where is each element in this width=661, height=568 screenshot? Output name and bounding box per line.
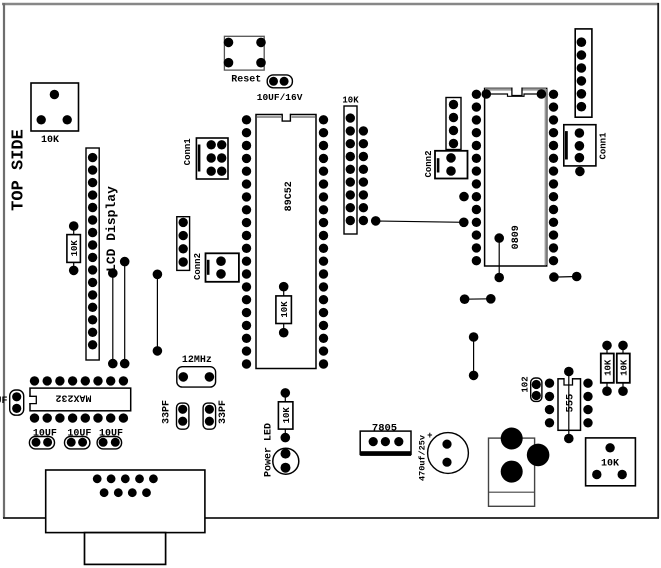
svg-text:Reset: Reset: [231, 75, 261, 86]
svg-text:10K: 10K: [70, 240, 80, 257]
capacitor 10UF #1: [29, 437, 54, 449]
svg-text:33PF: 33PF: [218, 400, 229, 424]
wire (inside 0809 bottom): [494, 233, 504, 282]
svg-text:89C52: 89C52: [284, 181, 295, 211]
wire (vertical, below 0809): [469, 332, 479, 380]
svg-text:12MHz: 12MHz: [182, 355, 212, 366]
connector LCD Display header: [86, 148, 99, 360]
resistor network 10K SIP: [344, 106, 357, 234]
svg-text:Conn1: Conn1: [183, 138, 193, 166]
capacitor 10UF (left edge, vertical): [10, 390, 24, 415]
svg-text:10K: 10K: [342, 96, 359, 106]
svg-text:555: 555: [565, 394, 577, 413]
connector DB9 body: [46, 470, 205, 533]
connector DB9 shell: [85, 533, 166, 565]
555 right pins: [583, 379, 592, 428]
crystal 12MHz: [177, 367, 216, 387]
IC U1 89C52: [256, 114, 316, 369]
svg-text:Conn2: Conn2: [193, 253, 203, 280]
capacitor 10UF #2: [65, 437, 90, 449]
capacitor 10UF #3: [97, 437, 122, 449]
resistor 10K (left of LCD): [67, 221, 81, 275]
resistor 10K (above LED): [278, 388, 293, 442]
0809 right pins: [549, 90, 558, 266]
potentiometer 10K (bottom right): [586, 438, 636, 486]
svg-text:Power LED: Power LED: [263, 423, 274, 477]
connector Conn2 strip (right): [446, 98, 461, 150]
wire (through 555): [564, 367, 574, 444]
555 left pins: [545, 379, 554, 428]
connector Conn2 box (left): [206, 253, 239, 281]
wire (horizontal, SIP to 0809): [371, 216, 469, 227]
89C52 right pins: [319, 115, 328, 369]
svg-text:10K: 10K: [41, 135, 59, 146]
10K SIP second pin column: [359, 126, 368, 225]
svg-text:10UF/16V: 10UF/16V: [257, 92, 303, 103]
svg-text:10K: 10K: [620, 359, 630, 376]
LED D1 (Power): [273, 448, 299, 474]
switch Reset: [224, 36, 266, 70]
IC MAX232: [29, 388, 131, 411]
svg-text:TOP SIDE: TOP SIDE: [10, 129, 29, 211]
connector strip (top right): [575, 29, 592, 117]
svg-text:10K: 10K: [604, 359, 614, 376]
svg-text:10K: 10K: [601, 459, 619, 470]
wire (0809 top, pin1 strap): [482, 89, 547, 99]
connector Conn1 (left): [196, 138, 228, 179]
board outline top edge: [2, 3, 659, 5]
svg-text:10K: 10K: [280, 301, 290, 318]
board outline left edge: [3, 3, 5, 518]
svg-text:+: +: [427, 431, 432, 441]
svg-text:33PF: 33PF: [162, 400, 173, 424]
svg-text:0809: 0809: [511, 225, 522, 249]
board outline bottom edge: [3, 517, 659, 519]
capacitor 470uf/25v: [428, 433, 469, 474]
capacitor 33PF (right): [203, 403, 216, 429]
wire (vertical, left of 89C52 #1): [108, 268, 118, 368]
resistor 10K (bottom right #1): [601, 341, 614, 396]
svg-text:7805: 7805: [372, 423, 397, 435]
board outline right edge: [657, 3, 659, 518]
svg-text:Conn2: Conn2: [424, 150, 434, 177]
MAX232 bottom pins: [30, 413, 128, 422]
wire (vertical, left of 89C52 #3): [153, 270, 163, 356]
svg-text:470uf/25v: 470uf/25v: [418, 435, 428, 481]
node (left of 0809): [459, 192, 469, 202]
0809 left pins: [472, 90, 481, 266]
transistor Q1 (power, TO-220): [489, 428, 550, 507]
connector Conn1 (right): [564, 125, 596, 166]
wire (vertical, left of 89C52 #2): [120, 257, 130, 369]
capacitor 33PF (left): [177, 403, 189, 429]
MAX232 top pins: [30, 376, 128, 385]
89C52 left pins: [242, 115, 251, 369]
capacitor 102: [531, 378, 542, 401]
svg-text:102: 102: [521, 376, 531, 392]
resistor 10K (inside 89C52): [276, 282, 292, 338]
resistor 10K (bottom right #2): [617, 341, 630, 396]
wire (horizontal, below 0809 right): [549, 272, 581, 282]
wire (horizontal, below 0809 left): [460, 294, 496, 304]
connector Conn2 box (right): [435, 151, 468, 179]
potentiometer 10K (top left): [31, 83, 79, 131]
svg-text:10K: 10K: [282, 407, 292, 424]
svg-text:MAX232: MAX232: [55, 392, 91, 403]
connector Conn2 strip (left): [177, 217, 190, 271]
IC U2 0809: [485, 87, 547, 266]
node (below Conn1 right): [575, 167, 585, 177]
IC 555: [558, 378, 581, 431]
regulator 7805: [360, 431, 411, 456]
svg-text:LCD Display: LCD Display: [104, 186, 119, 272]
svg-text:Conn1: Conn1: [598, 132, 608, 160]
svg-text:10UF: 10UF: [0, 396, 8, 407]
capacitor 10UF/16V: [267, 75, 292, 88]
